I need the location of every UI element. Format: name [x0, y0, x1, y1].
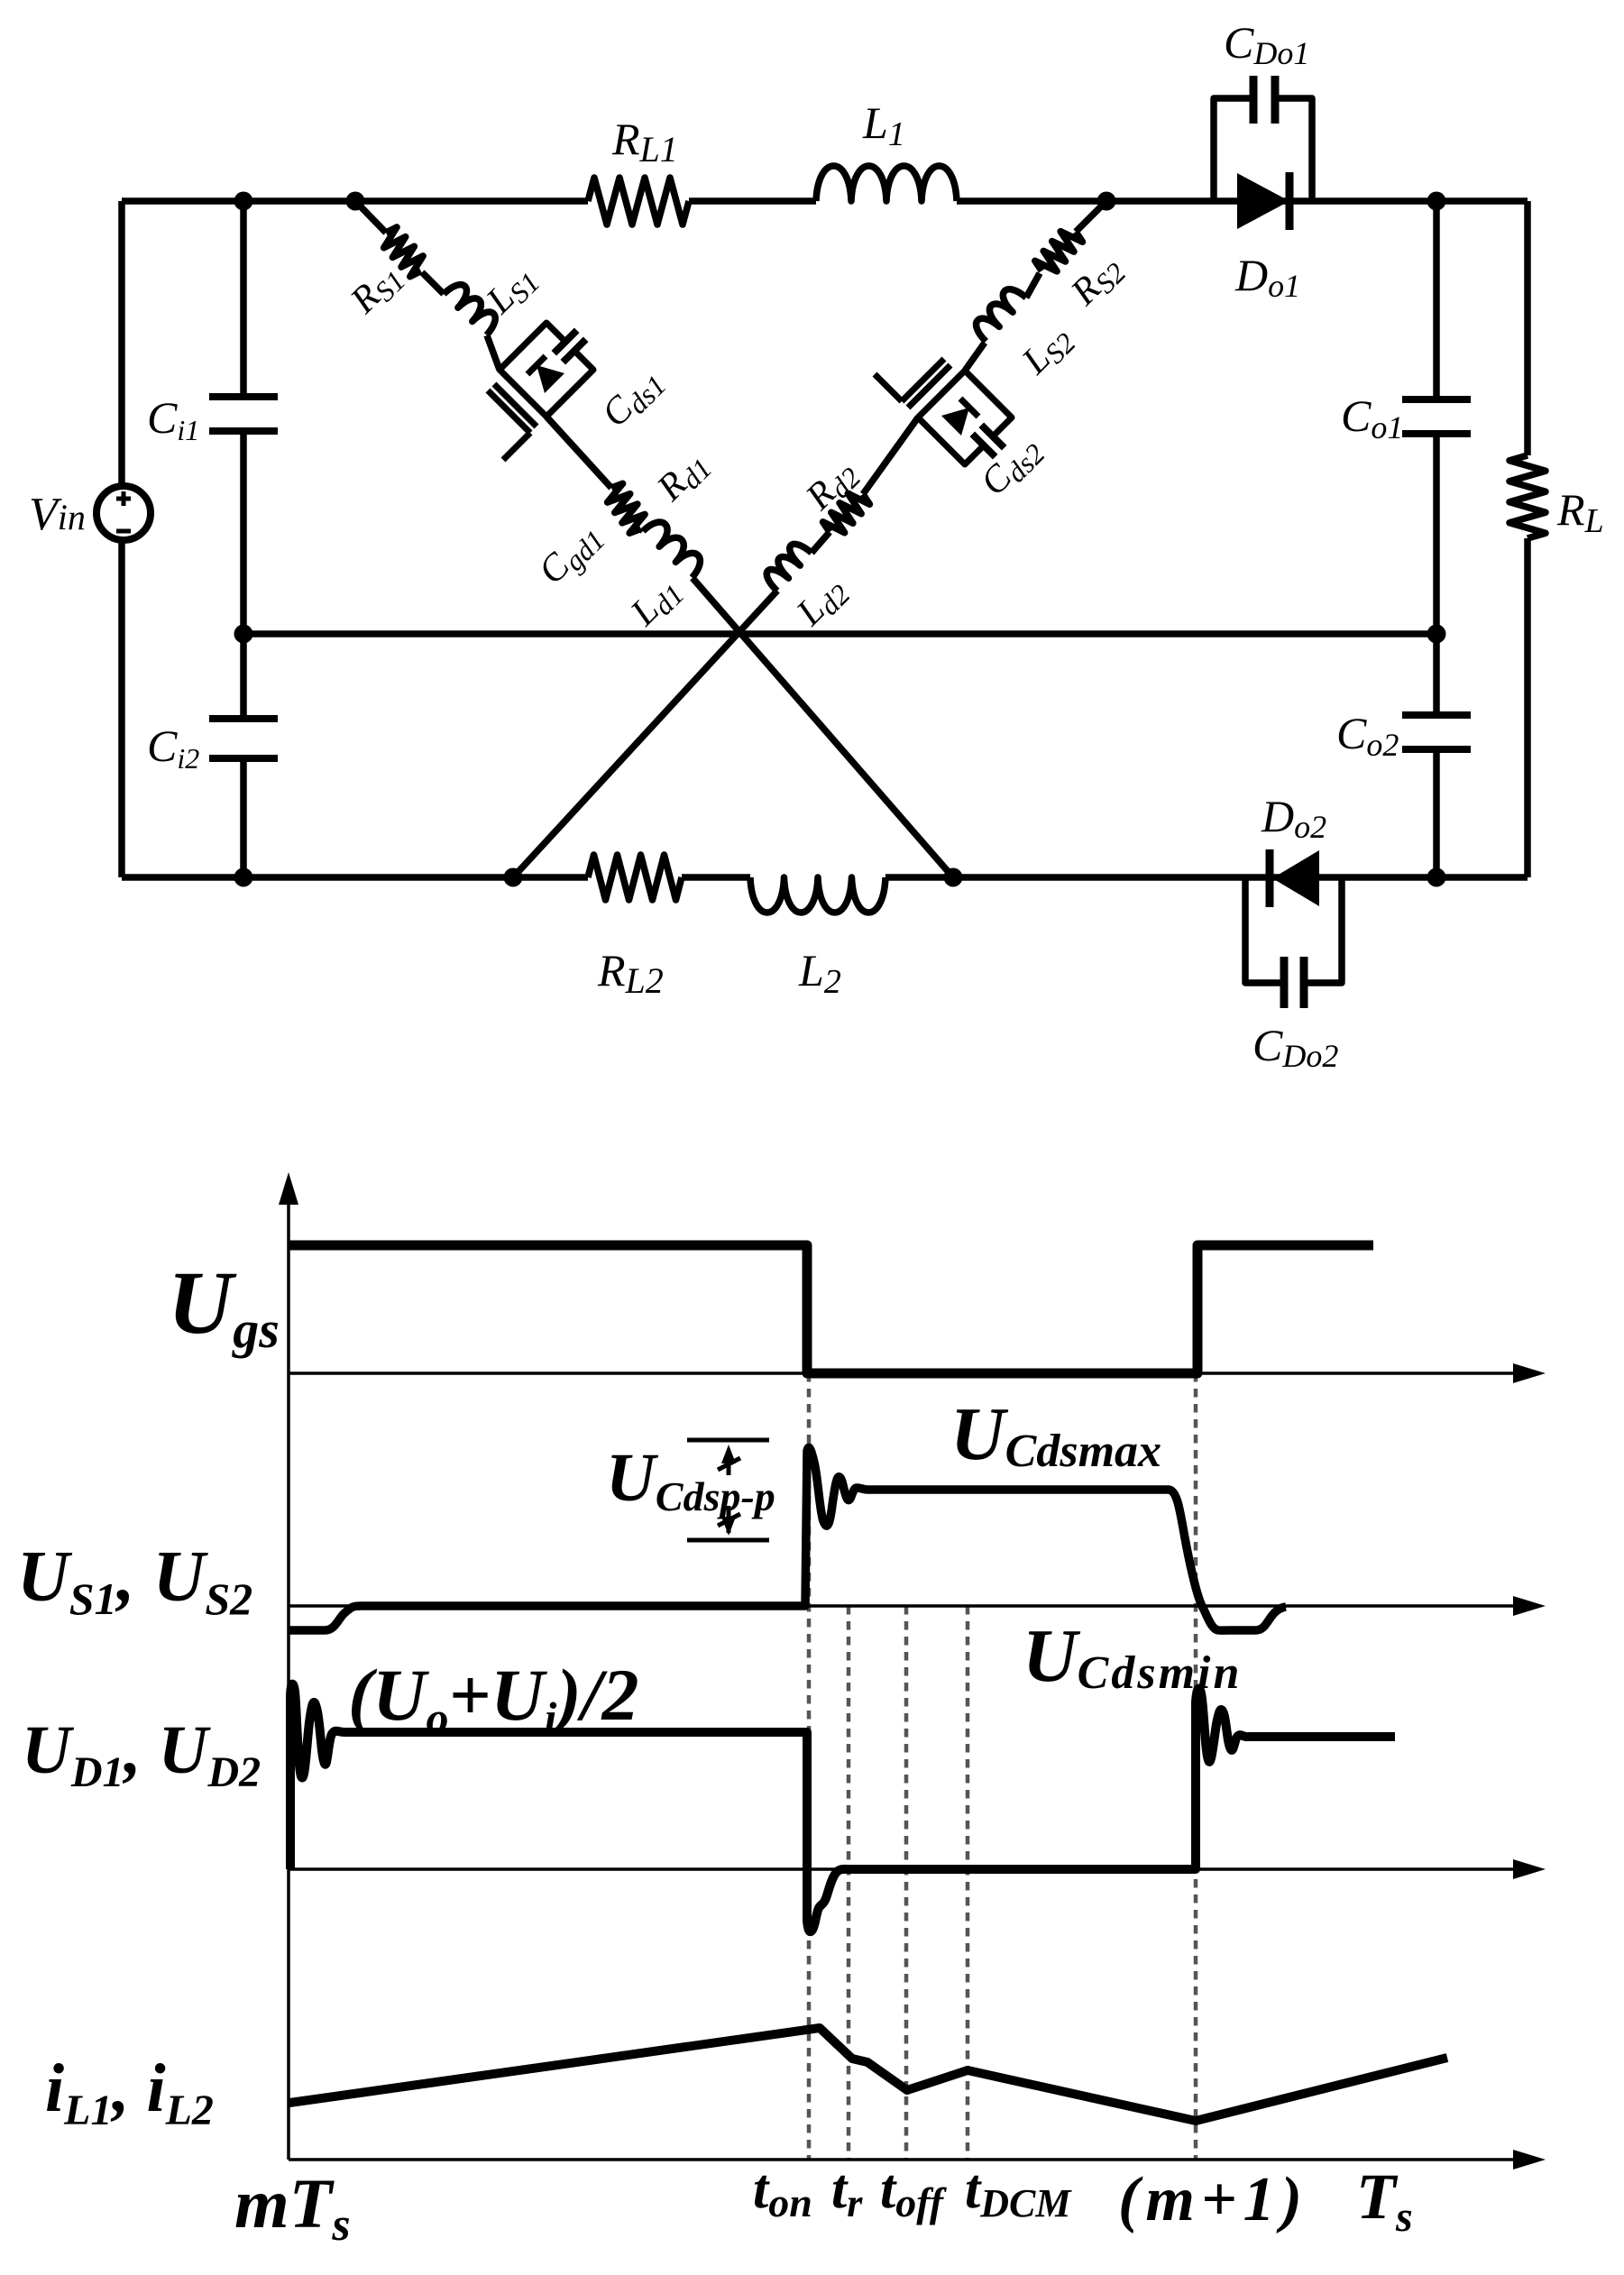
- svg-text:Do1: Do1: [1234, 250, 1300, 304]
- svg-text:LS2: LS2: [1014, 317, 1081, 385]
- svg-text:Ci1: Ci1: [147, 392, 199, 446]
- svg-text:UCdsmax: UCdsmax: [950, 1392, 1161, 1477]
- svg-text:RL1: RL1: [611, 114, 678, 170]
- svg-text:tDCM: tDCM: [965, 2159, 1072, 2225]
- svg-text:Rd1: Rd1: [648, 443, 718, 512]
- svg-text:US1, US2: US1, US2: [17, 1537, 252, 1624]
- svg-text:ton: ton: [753, 2159, 812, 2225]
- svg-text:RL: RL: [1556, 484, 1604, 540]
- svg-text:Ld1: Ld1: [622, 569, 690, 637]
- svg-text:toff: toff: [880, 2159, 948, 2225]
- svg-text:iL1, iL2: iL1, iL2: [45, 2050, 214, 2134]
- svg-text:Do2: Do2: [1261, 791, 1326, 845]
- svg-text:L2: L2: [798, 945, 841, 1001]
- svg-text:Cgd1: Cgd1: [531, 515, 611, 595]
- svg-text:(Uo+Ui)/2: (Uo+Ui)/2: [348, 1654, 638, 1743]
- svg-text:Ci2: Ci2: [147, 720, 199, 775]
- svg-text:Co2: Co2: [1336, 708, 1399, 763]
- svg-text:Ugs: Ugs: [168, 1252, 280, 1359]
- svg-text:Vin: Vin: [29, 489, 86, 540]
- svg-text:Ts: Ts: [1356, 2160, 1413, 2241]
- svg-text:CDo2: CDo2: [1252, 1020, 1338, 1074]
- svg-text:(m+1): (m+1): [1118, 2165, 1308, 2234]
- svg-text:Co1: Co1: [1341, 390, 1403, 445]
- svg-text:Cds1: Cds1: [594, 360, 673, 438]
- svg-text:mTs: mTs: [234, 2164, 351, 2251]
- svg-text:UCdsp-p: UCdsp-p: [606, 1440, 775, 1519]
- svg-text:RS2: RS2: [1062, 247, 1132, 316]
- svg-text:Ld2: Ld2: [788, 569, 856, 637]
- svg-text:UD1, UD2: UD1, UD2: [22, 1712, 261, 1796]
- svg-text:RL2: RL2: [597, 945, 664, 1001]
- svg-text:L1: L1: [862, 97, 905, 153]
- svg-text:CDo1: CDo1: [1224, 17, 1309, 71]
- svg-text:tr: tr: [831, 2159, 863, 2225]
